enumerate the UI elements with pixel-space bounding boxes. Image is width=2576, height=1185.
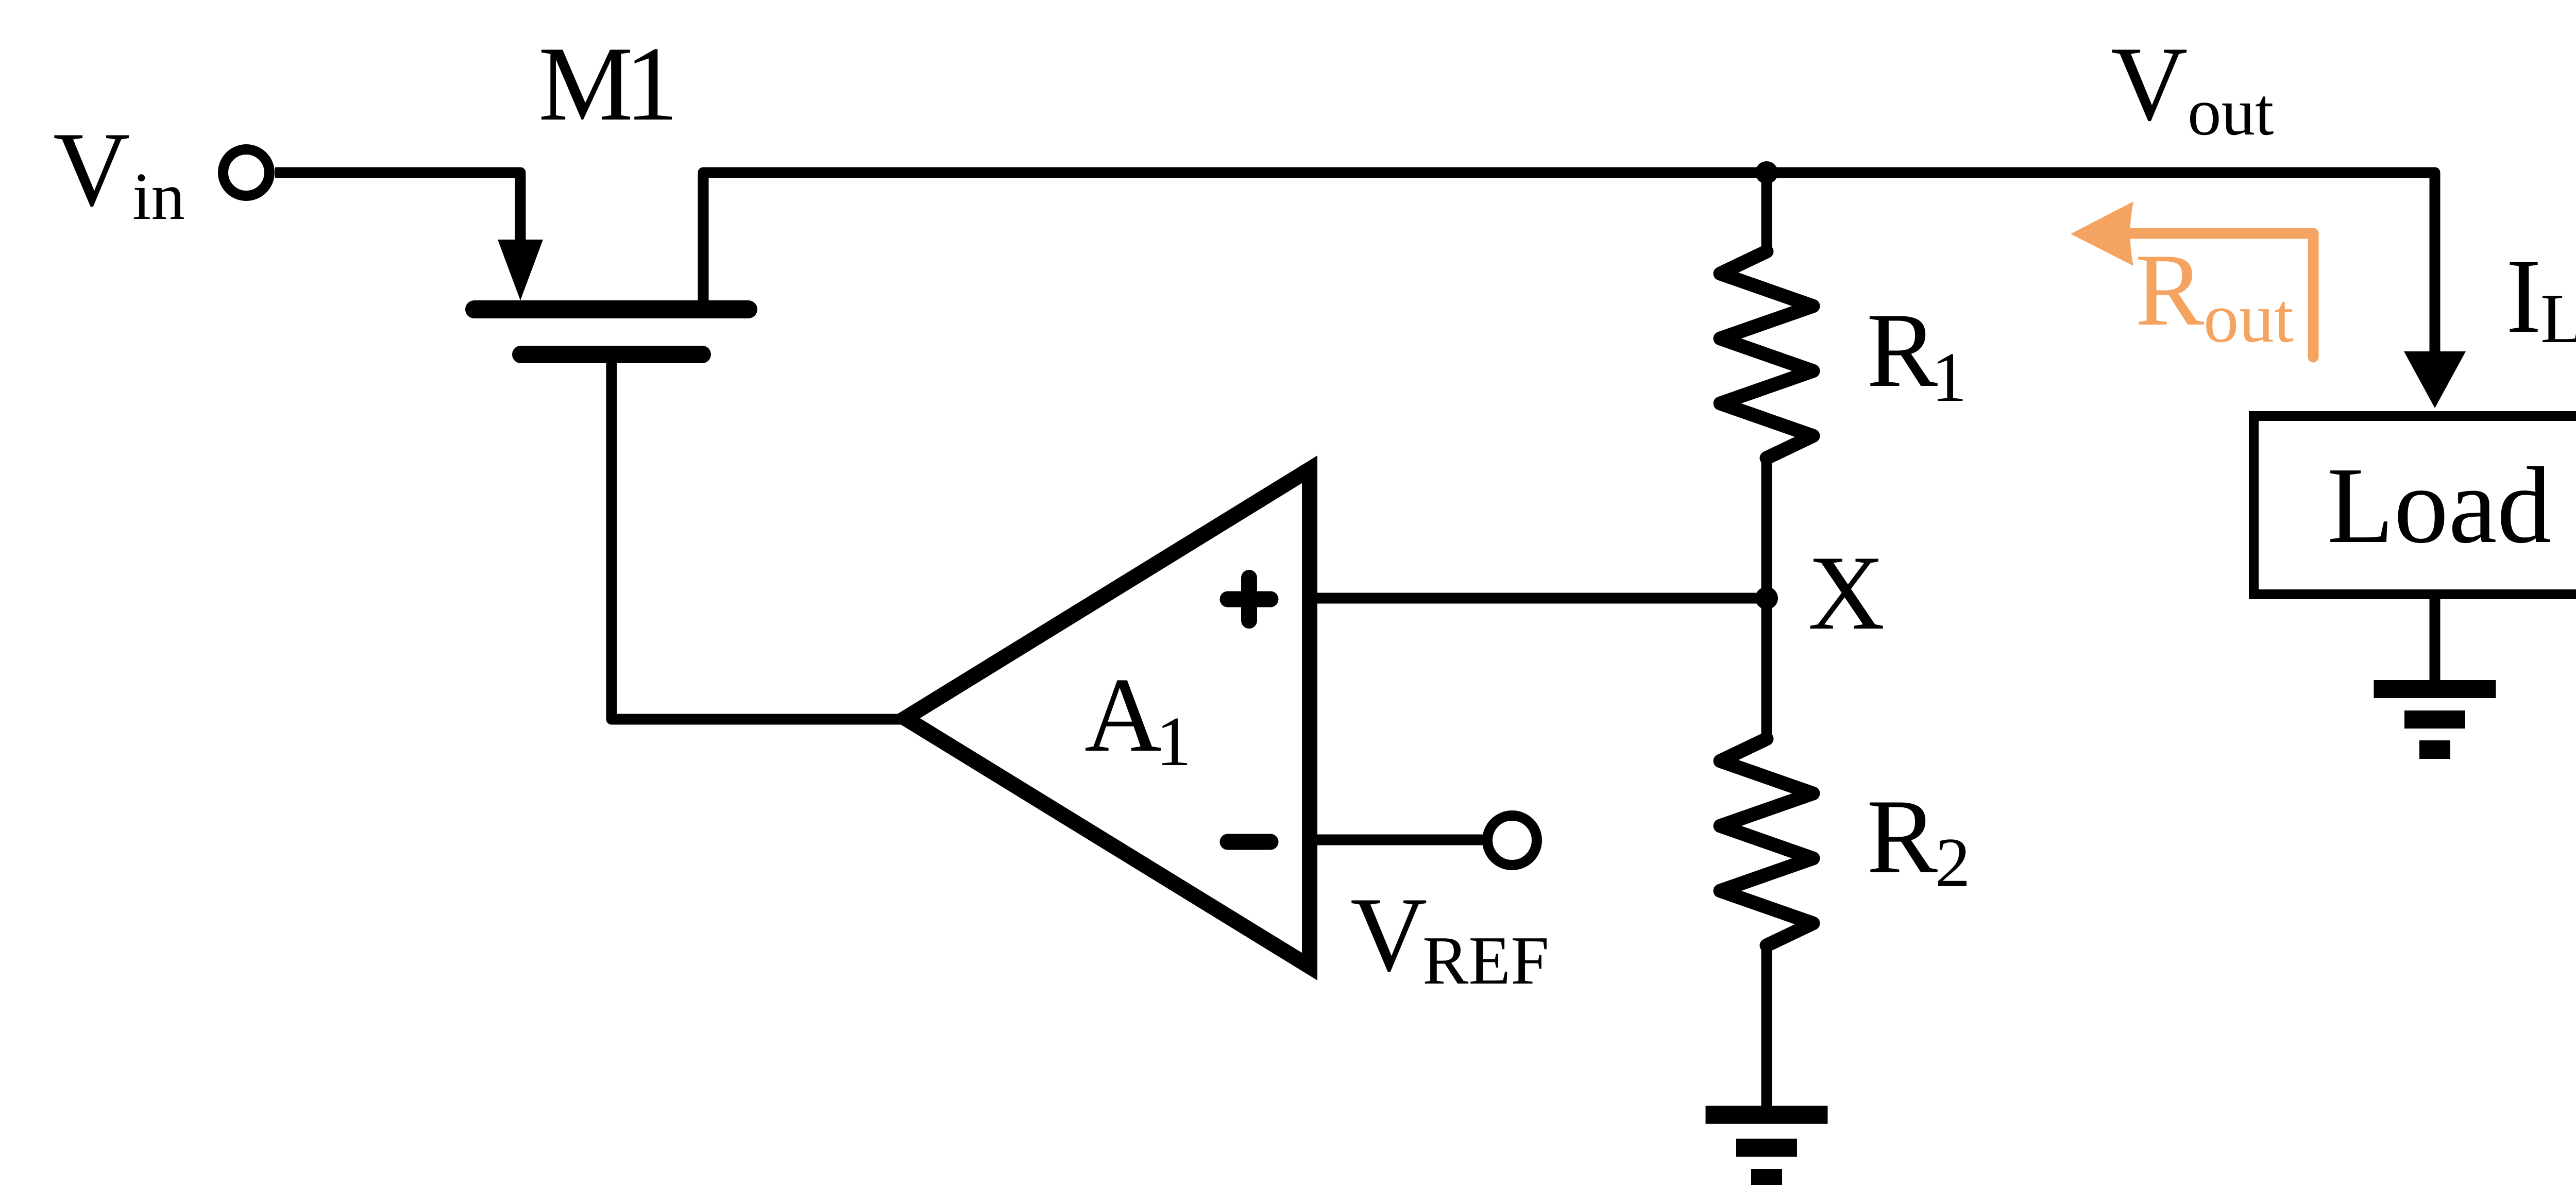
svg-text:1: 1: [1156, 702, 1192, 781]
resistor R2: [1720, 739, 1813, 945]
junction dot at Vout rail and R1: [1755, 161, 1778, 184]
op-amp minus symbol: [1228, 834, 1270, 850]
svg-text:1: 1: [625, 25, 679, 143]
orange Rout arrow: [2130, 233, 2313, 357]
transistor M1 channel bar: [465, 300, 757, 318]
terminal VREF: [1487, 816, 1537, 865]
label Rout: [2135, 233, 2294, 357]
op-amp plus symbol: [1228, 578, 1270, 621]
label Vout: [2111, 25, 2274, 149]
load box: [2254, 416, 2576, 595]
arrow IL into load: [2404, 351, 2466, 408]
svg-text:V: V: [53, 110, 130, 228]
svg-text:R: R: [2135, 233, 2204, 347]
wire node X to R2 top: [1761, 598, 1772, 741]
svg-text:I: I: [2506, 237, 2541, 355]
label R1: [1867, 291, 1967, 416]
wire M1 gate down to op-amp output: [612, 361, 907, 719]
svg-text:in: in: [132, 159, 185, 234]
label VREF: [1350, 875, 1549, 998]
svg-text:V: V: [2111, 25, 2188, 143]
svg-text:R: R: [1867, 777, 1938, 895]
wire load to ground: [2430, 599, 2441, 680]
label R2: [1867, 777, 1971, 902]
svg-text:out: out: [2188, 75, 2274, 149]
svg-text:A: A: [1084, 656, 1162, 774]
wire M1 drain up and top rail to output corner: [703, 173, 2435, 357]
label A1: [1084, 656, 1192, 781]
source arrow of M1: [498, 240, 543, 300]
wire Vin to M1 source: [275, 173, 520, 242]
svg-text:L: L: [2540, 279, 2576, 358]
wire op-amp plus input to node X: [1310, 593, 1767, 604]
orange Rout arrowhead: [2071, 201, 2133, 266]
svg-text:2: 2: [1935, 823, 1971, 902]
svg-text:R: R: [1867, 291, 1938, 409]
svg-text:out: out: [2204, 279, 2294, 357]
wire R2 bottom to ground: [1761, 943, 1772, 1106]
label Vin: [53, 110, 185, 234]
svg-text:X: X: [1808, 534, 1885, 652]
wire op-amp minus input to VREF terminal: [1310, 835, 1483, 845]
wire R1 bottom to node X: [1761, 456, 1772, 598]
label IL: [2506, 237, 2576, 358]
node X junction dot: [1755, 587, 1778, 610]
terminal Vin: [223, 149, 269, 196]
svg-text:Load: Load: [2327, 445, 2552, 566]
svg-text:M: M: [538, 25, 633, 143]
resistor R1: [1720, 251, 1813, 458]
ground under load: [2374, 680, 2496, 759]
svg-text:V: V: [1350, 875, 1428, 993]
transistor M1 gate bar: [512, 346, 711, 363]
op-amp A1: [905, 469, 1310, 967]
wire rail to R1 top: [1761, 173, 1772, 253]
svg-text:REF: REF: [1422, 922, 1549, 998]
ground under R2: [1706, 1106, 1828, 1185]
svg-text:1: 1: [1931, 338, 1967, 416]
